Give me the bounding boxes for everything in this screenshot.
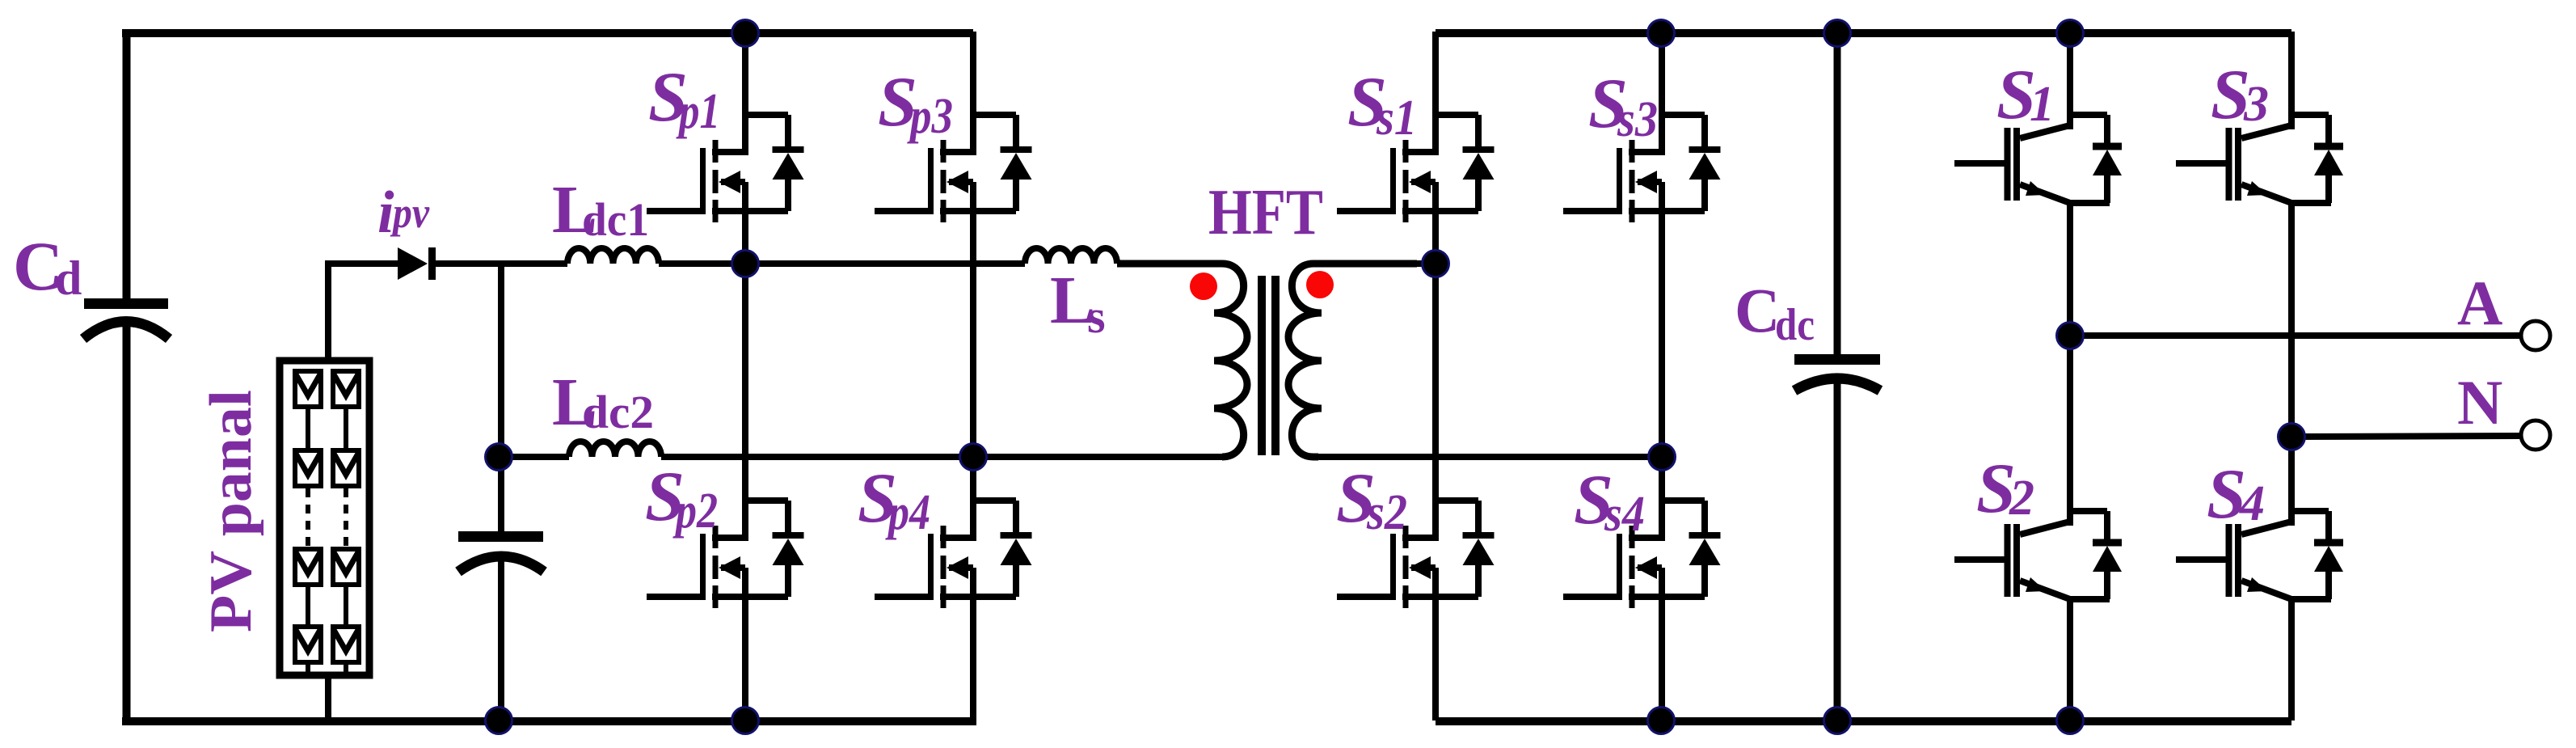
svg-text:dc: dc — [1775, 300, 1815, 350]
svg-text:2: 2 — [2009, 471, 2034, 526]
svg-text:N: N — [2457, 367, 2502, 437]
label Cd — [13, 227, 82, 305]
label Ss2 — [1336, 459, 1407, 540]
mosfet Sp4 — [875, 457, 1032, 721]
svg-text:p3: p3 — [907, 89, 953, 144]
label HFT — [1208, 177, 1323, 248]
junction top rail / Cdc — [1824, 20, 1851, 47]
svg-text:d: d — [55, 251, 82, 305]
wire Cdc upper — [1834, 32, 1841, 355]
svg-text:s4: s4 — [1604, 487, 1645, 542]
svg-text:dc1: dc1 — [582, 193, 649, 246]
wire transformer secondary bottom to Ss3 midpoint — [1318, 454, 1662, 460]
wire PV panel bottom lead — [325, 675, 331, 721]
node Ldc2 junction wire — [501, 454, 569, 460]
junction bottom rail / Sp2 — [732, 708, 759, 734]
PV cell C1 — [295, 549, 321, 585]
junction Sp3-Sp4 midpoint — [960, 444, 987, 471]
wire phase A output — [2070, 332, 2519, 339]
junction Sp1-Sp2 midpoint — [732, 251, 759, 277]
terminal A — [2521, 321, 2550, 350]
label Ss1 — [1347, 63, 1417, 146]
mosfet Ss4 — [1563, 457, 1721, 721]
polarity dot primary — [1190, 273, 1217, 300]
junction top rail / Ss3 — [1648, 20, 1675, 47]
transformer HFT primary winding — [1117, 264, 1247, 457]
igbt S1 — [1954, 32, 2122, 336]
igbt S4 — [2176, 437, 2343, 721]
junction bottom rail / input-cap — [486, 708, 512, 734]
igbt S3 — [2176, 32, 2343, 437]
PV string links row3-row4 — [308, 587, 346, 624]
wire transformer secondary top to Ss1 midpoint — [1323, 260, 1436, 267]
transformer HFT secondary winding — [1288, 264, 1417, 457]
label S2 — [1976, 450, 2034, 528]
label S4 — [2207, 455, 2265, 534]
label PV panal — [198, 390, 264, 632]
PV cell C2 — [333, 549, 359, 585]
mosfet Ss1 — [1337, 32, 1495, 264]
svg-text:4: 4 — [2239, 476, 2265, 531]
svg-text:pv: pv — [390, 188, 429, 237]
label Ss4 — [1574, 461, 1645, 542]
wire left vertical (Cd branch upper) — [123, 33, 131, 299]
label S1 — [1996, 56, 2055, 134]
label Sp2 — [645, 458, 718, 539]
PV string bottom stubs — [308, 665, 346, 672]
inductor Ls — [1025, 248, 1117, 264]
junction neutral N — [2279, 424, 2305, 450]
wire PV panel top lead — [325, 264, 398, 359]
label N — [2457, 367, 2502, 437]
PV string dashed links — [308, 488, 346, 547]
label Ss3 — [1588, 65, 1658, 147]
svg-text:p4: p4 — [885, 485, 930, 540]
label A — [2457, 268, 2502, 338]
wire top-right dc rail — [1436, 29, 2291, 37]
junction bottom rail / Cdc — [1824, 708, 1851, 734]
junction Ldc2 tap — [486, 444, 512, 471]
svg-text:s: s — [1087, 290, 1106, 343]
PV panel box — [280, 361, 369, 675]
PV cell A2 — [333, 371, 359, 407]
polarity dot secondary — [1306, 271, 1334, 298]
junction bottom rail / Ss4 — [1648, 708, 1675, 734]
PV cell B1 — [295, 450, 321, 486]
svg-text:i: i — [377, 180, 394, 246]
node input-cap tap vertical — [498, 264, 504, 532]
label Sp4 — [858, 459, 930, 540]
junction Ss1-Ss2 midpoint — [1423, 251, 1449, 277]
label Ldc1 — [552, 172, 649, 247]
inductor Ldc2 — [569, 442, 661, 457]
wire left vertical (Cd branch lower) — [123, 322, 131, 721]
capacitor Cdc — [1794, 354, 1880, 391]
capacitor C1 (input filter) — [458, 531, 544, 572]
mosfet Sp3 — [875, 32, 1032, 457]
transformer HFT core — [1262, 276, 1275, 455]
PV cell B2 — [333, 450, 359, 486]
svg-text:s2: s2 — [1366, 485, 1407, 540]
mosfet Sp1 — [647, 32, 804, 264]
svg-text:1: 1 — [2030, 77, 2055, 132]
svg-text:HFT: HFT — [1208, 177, 1323, 248]
wire input-cap to bottom rail — [498, 558, 504, 721]
wire Ldc2 to transformer primary bottom — [661, 454, 1222, 460]
wire neutral N output — [2291, 436, 2519, 437]
igbt S2 — [1954, 336, 2122, 721]
svg-text:PV panal: PV panal — [198, 390, 264, 632]
label Cdc — [1735, 275, 1815, 350]
svg-text:s1: s1 — [1376, 91, 1417, 146]
label Ls — [1050, 263, 1106, 343]
svg-text:A: A — [2457, 268, 2502, 338]
wire Ldc1 to Sp1 midpoint — [659, 260, 1025, 267]
label S3 — [2211, 56, 2269, 134]
mosfet Sp2 — [647, 264, 804, 721]
wire Cdc lower — [1834, 378, 1841, 721]
PV cell D1 — [295, 627, 321, 662]
inductor Ldc1 — [567, 248, 659, 264]
svg-text:p2: p2 — [672, 484, 718, 539]
wire bottom-left dc rail — [122, 717, 976, 725]
mosfet Ss3 — [1563, 32, 1721, 457]
junction phase A — [2057, 323, 2084, 349]
wire top-left dc rail — [122, 29, 973, 37]
diode ipv — [398, 247, 436, 280]
label ipv — [377, 180, 430, 246]
junction bottom rail / S2 — [2057, 708, 2084, 734]
label Sp1 — [648, 58, 720, 139]
label Sp3 — [878, 63, 953, 144]
svg-text:s3: s3 — [1617, 92, 1658, 147]
junction top rail / S1 — [2057, 20, 2084, 47]
svg-text:p1: p1 — [676, 84, 720, 139]
wire diode to Ldc1 — [436, 260, 567, 267]
capacitor Cd — [83, 298, 169, 339]
svg-text:3: 3 — [2243, 77, 2269, 132]
PV string links row1-row2 — [308, 409, 346, 448]
svg-text:C: C — [1735, 275, 1780, 345]
PV cell D2 — [333, 627, 359, 662]
wire bottom-right dc rail — [1436, 717, 2291, 725]
junction top rail / Sp1 — [732, 20, 759, 47]
label Ldc2 — [552, 365, 654, 440]
junction Ss3-Ss4 midpoint — [1649, 444, 1676, 471]
mosfet Ss2 — [1337, 264, 1495, 721]
svg-text:dc2: dc2 — [582, 386, 654, 438]
PV cell A1 — [295, 371, 321, 407]
terminal N — [2521, 420, 2550, 450]
